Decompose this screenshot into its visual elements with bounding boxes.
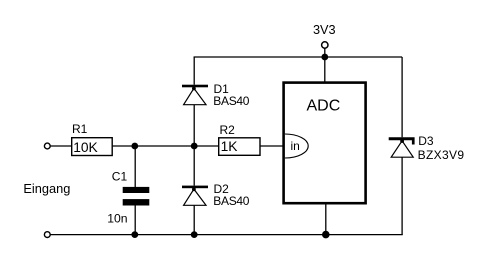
svg-text:10n: 10n bbox=[107, 211, 127, 225]
label D3 bbox=[418, 134, 434, 148]
IC U1 ADC box bbox=[284, 83, 366, 204]
resistor R1 bbox=[72, 138, 113, 156]
label Eingang bbox=[23, 181, 70, 196]
value 1K bbox=[221, 139, 239, 154]
value BAS40 (D1) bbox=[213, 94, 249, 108]
junction node C1 top bbox=[131, 143, 138, 150]
svg-text:10K: 10K bbox=[73, 140, 98, 155]
diode D1 bbox=[182, 85, 208, 105]
wire ADC bottom lead bbox=[325, 203, 327, 234]
value BZX3V9 bbox=[418, 148, 465, 162]
wire terminal to R1 bbox=[50, 145, 71, 147]
pin label in bbox=[291, 139, 300, 153]
wire D3 upper lead bbox=[401, 57, 403, 137]
svg-text:3V3: 3V3 bbox=[313, 23, 336, 37]
label C1 bbox=[112, 170, 128, 184]
label D2 bbox=[214, 182, 230, 196]
junction node D2 bottom bbox=[191, 231, 198, 238]
net label 3V3 bbox=[313, 23, 336, 37]
junction node D1/D2 bbox=[191, 143, 198, 150]
svg-text:R2: R2 bbox=[220, 123, 236, 137]
wire D2 lower lead bbox=[193, 206, 195, 235]
junction node C1 bottom bbox=[131, 231, 138, 238]
wire D3 lower lead bbox=[401, 157, 403, 234]
label D1 bbox=[214, 82, 230, 96]
pin port in bbox=[285, 134, 308, 158]
wire ADC top lead bbox=[324, 57, 326, 82]
supply terminal 3V3 bbox=[322, 42, 328, 57]
wire R1 to R2 bbox=[112, 145, 219, 147]
svg-text:BAS40: BAS40 bbox=[213, 94, 249, 108]
diode D2 bbox=[182, 186, 208, 206]
wire R2 to ADC bbox=[260, 145, 283, 147]
wire C1 bottom lead bbox=[134, 206, 136, 235]
svg-text:in: in bbox=[291, 139, 300, 153]
value 10K bbox=[73, 140, 98, 155]
junction node ADC bottom bbox=[322, 231, 330, 239]
wire D1 lower lead bbox=[193, 105, 195, 146]
top rail 3V3 bbox=[194, 56, 403, 58]
svg-text:BZX3V9: BZX3V9 bbox=[418, 148, 465, 162]
bottom rail bbox=[50, 234, 402, 236]
zener diode D3 bbox=[389, 137, 415, 157]
value 10n bbox=[107, 211, 127, 225]
label R1 bbox=[72, 122, 88, 136]
value BAS40 (D2) bbox=[213, 194, 249, 208]
svg-text:D3: D3 bbox=[418, 134, 434, 148]
label R2 bbox=[220, 123, 236, 137]
input terminal top bbox=[44, 143, 50, 149]
svg-text:R1: R1 bbox=[72, 122, 88, 136]
svg-text:Eingang: Eingang bbox=[23, 181, 70, 196]
resistor R2 bbox=[219, 138, 260, 156]
svg-text:C1: C1 bbox=[112, 170, 128, 184]
svg-text:ADC: ADC bbox=[307, 98, 341, 115]
svg-text:1K: 1K bbox=[221, 139, 239, 154]
input terminal bottom bbox=[44, 232, 50, 238]
wire D2 upper lead bbox=[193, 146, 195, 186]
label ADC bbox=[307, 98, 341, 115]
capacitor C1 bbox=[123, 187, 150, 206]
wire D1 upper lead to top rail bbox=[193, 57, 195, 85]
junction node 3V3 bbox=[321, 54, 328, 61]
svg-text:BAS40: BAS40 bbox=[213, 194, 249, 208]
wire C1 top lead bbox=[134, 146, 136, 187]
